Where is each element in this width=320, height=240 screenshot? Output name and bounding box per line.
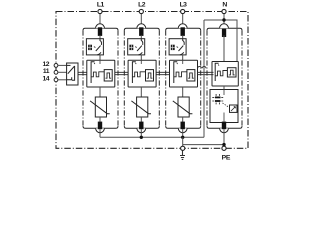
white background	[0, 0, 292, 164]
terminal L1	[98, 9, 102, 13]
trigger electrode with arrow	[215, 63, 218, 81]
remote signalling terminal 11	[54, 70, 58, 74]
contact common vertical	[72, 66, 75, 80]
electrode corona ticks	[212, 94, 223, 104]
N-PE spark gap module enclosure	[207, 28, 242, 30]
contact 14 hook	[67, 77, 72, 80]
N bus vertical (connects varistor common bus to N)	[203, 20, 205, 137]
wire N terminal down	[223, 14, 225, 28]
svg-text:14: 14	[42, 76, 49, 83]
wire into spark gap	[223, 90, 225, 96]
changeover contact box	[67, 63, 78, 85]
svg-text:PE: PE	[222, 155, 231, 162]
trigger bus pair between modules and to signal box	[78, 71, 214, 73]
terminal PE	[222, 146, 226, 150]
contact 12 line	[67, 64, 71, 66]
entry arc on N module	[220, 24, 229, 28]
module L2 (varistor path)	[124, 14, 159, 138]
junction dot bus L2	[140, 136, 143, 139]
junction dot PE link	[222, 143, 225, 146]
exit arc on N module bottom	[220, 128, 229, 132]
pulse generator box	[227, 68, 236, 77]
N module top thermal disconnector	[222, 29, 226, 37]
terminal L2	[139, 9, 143, 13]
trigger pulse waveform	[215, 71, 227, 76]
svg-text:L1: L1	[97, 2, 105, 9]
terminal earth	[181, 146, 185, 150]
wire out of spark gap	[223, 113, 225, 122]
N module trigger-circuit box	[212, 62, 238, 87]
wire to trigger box	[223, 35, 225, 61]
remote signalling terminal 14	[54, 78, 58, 82]
spark gap box	[210, 90, 238, 123]
wire to PE	[223, 129, 225, 148]
svg-text:12: 12	[42, 61, 49, 68]
control square with arrow	[230, 105, 238, 112]
hop arcs near N-bus crossing	[198, 66, 202, 68]
wire trigger box to spark gap box	[223, 86, 225, 90]
contact blade	[68, 66, 75, 74]
module L3 (varistor path)	[166, 14, 201, 138]
remote signalling terminal 12	[54, 64, 58, 68]
junction dot N rail	[222, 18, 225, 21]
svg-text:L3: L3	[180, 2, 188, 9]
junction dot bus L3	[181, 136, 184, 139]
varistor common bus	[100, 136, 204, 138]
PE link wire	[183, 144, 224, 146]
svg-text:L2: L2	[138, 2, 146, 9]
dashed arrow to control square	[223, 103, 229, 107]
earth drop wire	[182, 137, 184, 148]
earth symbol	[180, 150, 185, 159]
device enclosure (dash-dot)	[56, 12, 248, 149]
module L1 (varistor path)	[83, 14, 118, 138]
terminal N	[222, 9, 226, 13]
N rail wire (bypass to trigger electronics)	[204, 20, 237, 62]
svg-text:11: 11	[43, 68, 50, 75]
N module bottom thermal disconnector	[222, 122, 226, 130]
wire 12	[58, 64, 67, 66]
terminal L3	[181, 9, 185, 13]
wire 14	[58, 79, 67, 81]
wire 11	[58, 71, 67, 73]
svg-text:N: N	[222, 2, 227, 9]
spark gap electrodes	[215, 97, 221, 99]
